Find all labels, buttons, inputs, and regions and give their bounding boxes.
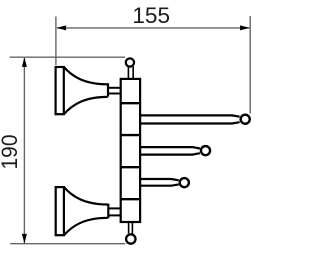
- svg-text:155: 155: [132, 3, 170, 28]
- svg-text:190: 190: [0, 135, 22, 170]
